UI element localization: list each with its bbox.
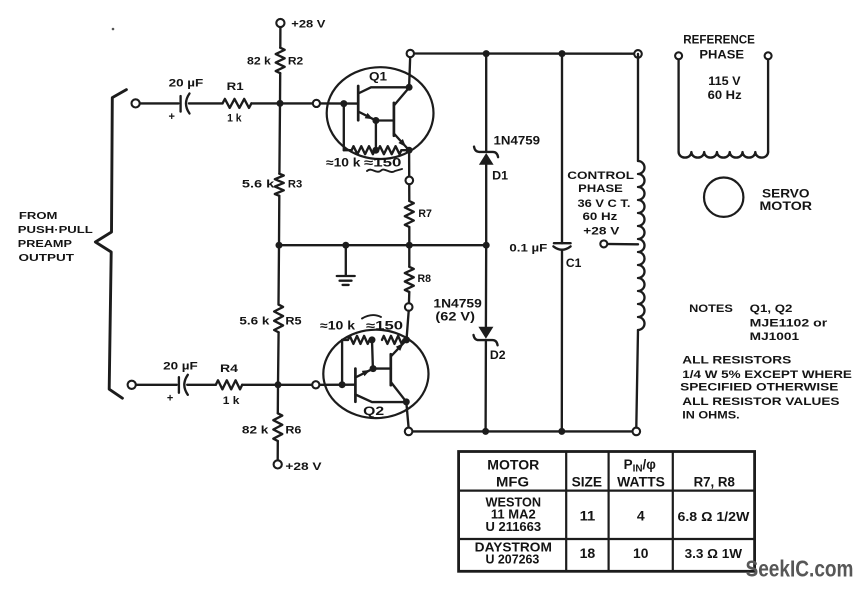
wire: rail to D1 bbox=[485, 54, 487, 151]
svg-text:U 207263: U 207263 bbox=[486, 552, 540, 566]
svg-text:MJ1001: MJ1001 bbox=[750, 331, 799, 343]
node: Q2 emitter tie bbox=[403, 336, 410, 343]
node: D1 tap bbox=[483, 50, 490, 57]
svg-text:82 k: 82 k bbox=[242, 425, 270, 437]
node: R4/R5/R6 junction bbox=[275, 381, 282, 388]
svg-text:60 Hz: 60 Hz bbox=[708, 90, 742, 102]
wire: mid node to D2 bbox=[485, 245, 488, 327]
node: Q2 base junction bbox=[339, 381, 346, 388]
wire: mid node to R8 bbox=[408, 245, 410, 267]
wire: interstage down to R network bbox=[375, 121, 377, 151]
wire: node to R6 bbox=[277, 385, 280, 414]
wire: D1 to mid node bbox=[485, 165, 487, 245]
svg-text:R3: R3 bbox=[288, 178, 302, 190]
resistor R5 bbox=[274, 305, 283, 333]
wire: interstage up to R network bbox=[371, 340, 374, 369]
svg-text:R5: R5 bbox=[285, 316, 301, 328]
svg-text:1N4759: 1N4759 bbox=[494, 135, 541, 147]
Q1b base bar bbox=[393, 103, 396, 136]
svg-text:SeekIC.com: SeekIC.com bbox=[746, 555, 854, 581]
svg-text:R4: R4 bbox=[220, 363, 239, 375]
terminal: top input bbox=[132, 99, 140, 107]
svg-text:PUSH·PULL: PUSH·PULL bbox=[18, 224, 94, 236]
wire: mid node to R5 bbox=[277, 245, 280, 304]
capacitor 20uF top: left plate bbox=[179, 96, 181, 112]
terminal: +28 V bottom bbox=[274, 460, 282, 468]
node: divider mid bbox=[276, 242, 283, 249]
svg-text:WATTS: WATTS bbox=[617, 474, 665, 489]
ground bbox=[337, 275, 355, 277]
terminal: reference phase left bbox=[675, 52, 682, 59]
node: Q2 interstage bbox=[370, 365, 377, 372]
Q1a base bar bbox=[357, 86, 360, 120]
svg-text:D2: D2 bbox=[490, 350, 506, 362]
svg-text:R6: R6 bbox=[285, 425, 301, 437]
node: zener mid junction bbox=[483, 242, 490, 249]
diode D1 zener cathode bar bbox=[474, 147, 498, 158]
svg-text:1N4759: 1N4759 bbox=[433, 299, 481, 311]
svg-text:IN OHMS.: IN OHMS. bbox=[682, 410, 739, 422]
Q2a base bar bbox=[354, 369, 357, 402]
transistor Q1 (darlington pair) bbox=[327, 67, 434, 159]
wire: R4 to node bbox=[242, 384, 312, 386]
svg-text:MFG: MFG bbox=[496, 474, 529, 489]
wire: Q1 base down to internal resistors bbox=[343, 104, 345, 151]
node: internal R junction Q1 bbox=[372, 147, 379, 154]
wire: Q2 base up to internal resistors bbox=[341, 340, 343, 385]
svg-text:FROM: FROM bbox=[19, 210, 58, 222]
wire: to control winding bbox=[637, 54, 639, 161]
node: Q1 collector tie bbox=[406, 84, 413, 91]
resistor R7 bbox=[405, 201, 414, 227]
wire: node to Q1 base bbox=[320, 102, 358, 105]
svg-text:≈10 k: ≈10 k bbox=[326, 157, 361, 169]
wire: Q1 collector to +rail bbox=[409, 54, 410, 88]
svg-text:R8: R8 bbox=[418, 273, 432, 285]
wire: Q1 emitter to R7 bbox=[408, 150, 411, 201]
svg-text:1 k: 1 k bbox=[227, 112, 242, 124]
node: Q1 emitter output bbox=[406, 147, 413, 154]
node: internal R junction Q2 bbox=[369, 336, 376, 343]
svg-text:SIZE: SIZE bbox=[572, 474, 603, 489]
svg-text:Q2: Q2 bbox=[363, 404, 384, 418]
svg-text:PHASE: PHASE bbox=[699, 50, 744, 62]
terminal: top rail left bbox=[407, 50, 414, 57]
svg-text:4: 4 bbox=[637, 508, 645, 523]
capacitor C1 curved plate bbox=[553, 246, 570, 249]
svg-text:1/4 W 5% EXCEPT WHERE: 1/4 W 5% EXCEPT WHERE bbox=[682, 369, 852, 381]
svg-text:115 V: 115 V bbox=[708, 76, 741, 88]
wire: center tap bbox=[604, 243, 638, 246]
terminal: bottom rail left bbox=[405, 428, 413, 436]
terminal: Q1 emitter node bbox=[406, 177, 414, 185]
wire: top rail bbox=[410, 52, 638, 55]
svg-text:82 k: 82 k bbox=[247, 56, 272, 68]
wire: node to R3 bbox=[278, 103, 281, 173]
wire: R8 to Q2 bbox=[408, 292, 411, 311]
Q1b emitter bbox=[394, 134, 408, 149]
wire: R2 to node bbox=[279, 73, 282, 103]
Q1b emitter arrow bbox=[398, 139, 406, 147]
Q2b emitter arrow bbox=[396, 343, 404, 351]
svg-text:20 µF: 20 µF bbox=[163, 360, 198, 372]
wire: C1 to bottom rail bbox=[561, 250, 564, 431]
motor selection table bbox=[459, 452, 755, 572]
capacitor 20uF bottom: right curved plate bbox=[184, 375, 188, 395]
wire bbox=[342, 339, 348, 341]
svg-text:Q1, Q2: Q1, Q2 bbox=[750, 303, 793, 315]
svg-text:≈150: ≈150 bbox=[366, 321, 403, 333]
resistor R3 bbox=[275, 174, 284, 196]
node: Q1 base junction bbox=[340, 100, 347, 107]
svg-text:1 k: 1 k bbox=[223, 395, 241, 407]
Q2b base bar bbox=[389, 354, 392, 385]
svg-text:ALL RESISTORS: ALL RESISTORS bbox=[682, 355, 791, 367]
capacitor C1 top plate bbox=[554, 242, 571, 244]
terminal: control phase bottom bbox=[633, 428, 641, 436]
svg-text:+: + bbox=[169, 111, 175, 123]
wire: node to Q2 base bbox=[319, 384, 355, 386]
wire: R7 to mid node bbox=[408, 227, 410, 245]
squiggle under 150 (Q1) bbox=[367, 169, 402, 172]
resistor R2 bbox=[276, 48, 285, 73]
svg-text:ALL RESISTOR VALUES: ALL RESISTOR VALUES bbox=[682, 396, 839, 408]
arc over 150 (Q2) bbox=[362, 315, 381, 318]
Q2a emitter arrow bbox=[362, 370, 371, 376]
svg-text:U 211663: U 211663 bbox=[486, 520, 542, 534]
node: R7/R8 mid bbox=[406, 242, 413, 249]
diode D1 triangle bbox=[479, 153, 494, 165]
wire bbox=[344, 149, 352, 151]
inductor: control phase winding bbox=[638, 161, 645, 330]
wire: mid rail to zener node bbox=[279, 244, 486, 246]
svg-text:R2: R2 bbox=[288, 56, 303, 68]
Q1a collector bbox=[358, 87, 409, 93]
wire: winding to bottom rail bbox=[636, 330, 638, 428]
wire bbox=[404, 339, 407, 341]
svg-text:NOTES: NOTES bbox=[689, 303, 733, 315]
wire: R5 to node bbox=[277, 332, 280, 385]
svg-text:PHASE: PHASE bbox=[578, 183, 623, 195]
diode D2 zener cathode bar bbox=[474, 335, 498, 345]
svg-text:R7: R7 bbox=[418, 208, 432, 220]
brace: push-pull preamp input bbox=[95, 90, 126, 399]
terminal: bottom input bbox=[128, 381, 136, 389]
wire: cap to R1 bbox=[189, 102, 223, 104]
svg-text:R1: R1 bbox=[227, 81, 244, 93]
terminal: top base node bbox=[313, 100, 320, 107]
svg-text:C1: C1 bbox=[566, 258, 582, 270]
svg-text:PREAMP: PREAMP bbox=[18, 238, 72, 250]
wire: rail to C1 bbox=[561, 54, 563, 244]
node: ground tap bbox=[342, 242, 349, 249]
Q1 internal resistor ~10k bbox=[352, 146, 375, 154]
svg-text:CONTROL: CONTROL bbox=[567, 170, 634, 182]
svg-text:(62 V): (62 V) bbox=[435, 312, 475, 324]
capacitor 20uF top: right curved plate bbox=[186, 94, 190, 114]
svg-text:+28 V: +28 V bbox=[285, 461, 322, 473]
wire: D2 to bottom rail bbox=[484, 340, 487, 431]
capacitor 20uF bottom: left plate bbox=[178, 377, 180, 393]
svg-text:R7, R8: R7, R8 bbox=[694, 474, 736, 489]
Q2 internal resistor ~150 bbox=[382, 336, 404, 344]
node: Q2 collector tie bbox=[403, 398, 410, 405]
svg-text:5.6 k: 5.6 k bbox=[242, 178, 276, 190]
wire: R6 to +28V bbox=[277, 441, 279, 460]
svg-text:+: + bbox=[167, 392, 173, 404]
resistor R1 bbox=[223, 99, 252, 108]
wire: R3 to mid node bbox=[278, 196, 281, 245]
terminal: +28 V center tap bbox=[600, 240, 607, 247]
svg-text:SERVO: SERVO bbox=[762, 189, 810, 201]
transistor Q2 (darlington pair) bbox=[323, 330, 428, 418]
diode D2 triangle bbox=[478, 327, 493, 339]
Q2a collector bbox=[355, 395, 406, 403]
Q2a emitter bbox=[355, 369, 371, 377]
wire: node down into Q2 bbox=[407, 311, 409, 340]
svg-text:SPECIFIED OTHERWISE: SPECIFIED OTHERWISE bbox=[680, 381, 838, 393]
node: D2 tap bbox=[482, 428, 489, 435]
svg-text:REFERENCE: REFERENCE bbox=[683, 34, 755, 46]
svg-text:D1: D1 bbox=[492, 171, 509, 183]
Q1a emitter arrow bbox=[365, 113, 374, 119]
wire: Q1a emitter to Q1b base bbox=[376, 119, 394, 121]
terminal: control phase top bbox=[634, 50, 642, 58]
stray scan speck bbox=[112, 28, 115, 31]
wire: top input to C 20uF bbox=[140, 102, 179, 104]
wire bbox=[401, 149, 409, 151]
terminal: Q2 emitter node bbox=[405, 303, 413, 311]
svg-text:+28 V: +28 V bbox=[291, 19, 326, 31]
wire: +28V to R2 bbox=[279, 27, 281, 48]
terminal: reference phase right bbox=[765, 52, 772, 59]
resistor R8 bbox=[405, 267, 414, 292]
svg-text:≈150: ≈150 bbox=[364, 157, 401, 169]
svg-text:36 V C T.: 36 V C T. bbox=[578, 198, 631, 210]
servo motor symbol bbox=[704, 178, 743, 217]
wire: R1 to node bbox=[251, 102, 313, 104]
svg-text:6.8 Ω 1/2W: 6.8 Ω 1/2W bbox=[678, 510, 750, 524]
svg-text:0.1 µF: 0.1 µF bbox=[509, 243, 547, 255]
svg-text:18: 18 bbox=[580, 546, 596, 561]
wire: bottom input to C 20uF bbox=[136, 384, 177, 386]
node: C1 tap bbox=[559, 50, 566, 57]
Q2 internal resistor ~10k bbox=[348, 336, 370, 344]
terminal: +28 V top bbox=[276, 19, 284, 27]
svg-text:≈10 k: ≈10 k bbox=[320, 321, 356, 333]
svg-text:5.6 k: 5.6 k bbox=[239, 316, 270, 328]
Q1 internal resistor ~150 bbox=[378, 146, 401, 154]
svg-text:60 Hz: 60 Hz bbox=[583, 211, 618, 223]
wire: bottom rail bbox=[409, 430, 637, 432]
node: C1 tap bottom bbox=[558, 428, 565, 435]
svg-text:MJE1102 or: MJE1102 or bbox=[750, 317, 828, 329]
svg-text:10: 10 bbox=[633, 546, 648, 561]
svg-text:11: 11 bbox=[580, 508, 596, 523]
resistor R4 bbox=[216, 380, 242, 389]
node: R1/R2/R3 junction bbox=[277, 100, 284, 107]
wire: Q2a emitter to Q2b base bbox=[373, 367, 391, 369]
terminal: bottom base node bbox=[312, 381, 319, 388]
Q1a emitter bbox=[358, 112, 374, 120]
svg-text:20 µF: 20 µF bbox=[169, 78, 204, 90]
Q2b collector bbox=[391, 382, 407, 402]
node: Q1 interstage bbox=[372, 117, 379, 124]
svg-text:MOTOR: MOTOR bbox=[760, 201, 813, 213]
Q2b emitter bbox=[391, 342, 405, 357]
resistor R6 bbox=[273, 413, 282, 441]
svg-text:MOTOR: MOTOR bbox=[487, 457, 539, 472]
svg-text:Q1: Q1 bbox=[369, 69, 387, 83]
Q1b collector bbox=[394, 88, 409, 106]
reference phase winding bbox=[677, 59, 679, 152]
svg-text:3.3 Ω 1W: 3.3 Ω 1W bbox=[685, 547, 743, 561]
wire: Q2 collector to -rail bbox=[406, 402, 408, 428]
wire: cap to R4 bbox=[187, 384, 216, 386]
svg-text:+28 V: +28 V bbox=[583, 226, 620, 238]
ground stem bbox=[345, 245, 347, 275]
svg-text:OUTPUT: OUTPUT bbox=[19, 252, 75, 264]
